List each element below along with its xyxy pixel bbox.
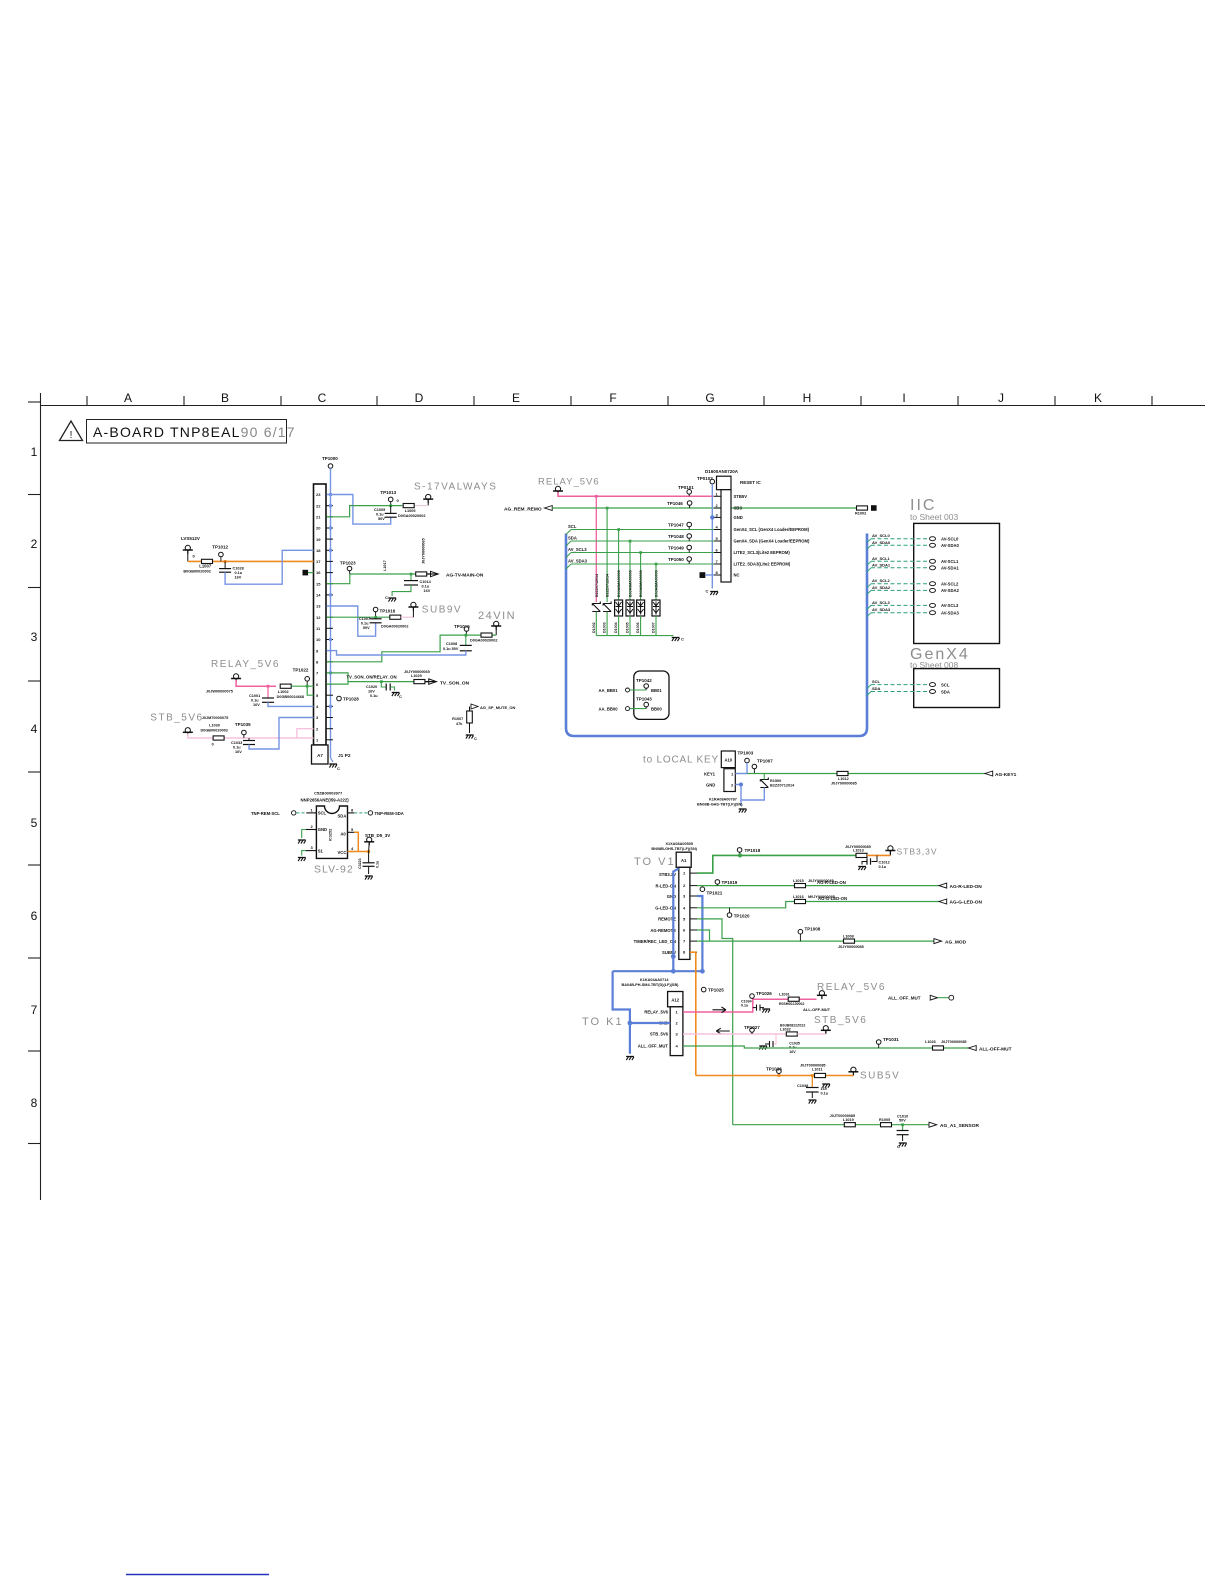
resistor L1029: [414, 680, 425, 684]
svg-text:15: 15: [316, 581, 321, 586]
svg-text:16V: 16V: [368, 690, 375, 694]
power flag RELAY_5V6 top: [553, 486, 563, 494]
svg-text:BB01: BB01: [651, 688, 662, 693]
ground R1007: [469, 723, 471, 733]
pin 3 S1: [306, 850, 317, 852]
resistor R1007 pullup: [469, 707, 471, 712]
svg-text:0.1u: 0.1u: [235, 571, 243, 575]
svg-text:0.1u: 0.1u: [370, 694, 378, 698]
svg-text:L1011: L1011: [812, 1068, 823, 1072]
svg-text:TP1049: TP1049: [668, 546, 684, 551]
svg-text:GenX4_SDA (GenX4 Loader/EEPROM: GenX4_SDA (GenX4 Loader/EEPROM): [734, 539, 811, 544]
test point TP1036: [777, 1069, 782, 1074]
pin 2 GND: [306, 829, 317, 831]
wire orange LVS512V to pin 17: [188, 560, 314, 562]
svg-text:ALL-OFF-MUT: ALL-OFF-MUT: [979, 1046, 1012, 1052]
svg-text:TP1003: TP1003: [738, 751, 754, 756]
svg-text:TP1000: TP1000: [322, 456, 338, 461]
wire green pin4 G-LED-ON: [697, 902, 939, 908]
svg-text:GND: GND: [318, 827, 327, 832]
wire pale pink pin3 STB_5V6: [683, 1033, 791, 1035]
junction dot: [380, 680, 383, 683]
svg-text:AA_BB00: AA_BB00: [599, 707, 619, 712]
svg-text:AV-SDA3: AV-SDA3: [941, 611, 960, 616]
ground TO K1: [626, 1057, 634, 1061]
junction dot: [465, 634, 468, 637]
svg-text:4: 4: [716, 525, 719, 530]
svg-text:A-BOARD TNP8EAL90 6/17: A-BOARD TNP8EAL90 6/17: [93, 424, 296, 440]
wire green pin2 to ground: [302, 830, 306, 839]
resistor L1015: [795, 884, 806, 888]
svg-text:BB00: BB00: [651, 707, 662, 712]
GenX4 sheet box: [914, 669, 1000, 708]
svg-text:C1007: C1007: [359, 617, 370, 621]
svg-text:0.1u: 0.1u: [233, 746, 241, 750]
svg-text:B: B: [221, 391, 229, 405]
svg-text:14: 14: [316, 593, 321, 598]
svg-text:J0JY00000085: J0JY00000085: [831, 782, 857, 786]
wire blue gnd pin3: [697, 896, 702, 971]
svg-text:7: 7: [716, 559, 719, 564]
svg-text:TP1046: TP1046: [667, 501, 683, 506]
svg-text:L1019: L1019: [843, 1118, 854, 1122]
wire green pin 16 to AG-TV-MAIN-ON: [327, 574, 430, 584]
wire green pin6 join: [697, 930, 710, 941]
arrow out TV_SON_ON: [425, 681, 436, 683]
arrow glyph left: [716, 1028, 730, 1034]
svg-text:12: 12: [316, 615, 321, 620]
svg-text:SUB9V: SUB9V: [422, 605, 462, 616]
svg-text:0.1u: 0.1u: [741, 1004, 748, 1008]
svg-text:B2ZZ0712014: B2ZZ0712014: [770, 784, 795, 788]
svg-text:ALL-OFF-MUT: ALL-OFF-MUT: [803, 1007, 831, 1012]
wire green pin7 TIMER row: [697, 940, 934, 942]
wire green taps to diodes: [619, 530, 656, 603]
wire pink pin1 RELAY_5V6: [683, 999, 817, 1012]
wire green pin4 ALL_OFF_MUT: [683, 1046, 969, 1048]
svg-text:50V: 50V: [899, 1119, 906, 1123]
svg-text:GenX4_SCL (GenX4 Loader/EEPROM: GenX4_SCL (GenX4 Loader/EEPROM): [734, 527, 810, 532]
test point TP1021: [700, 887, 705, 892]
connector A1 pin numbers: [683, 871, 686, 955]
svg-text:SUB5V: SUB5V: [860, 1071, 900, 1082]
svg-text:C1008: C1008: [446, 642, 457, 646]
svg-text:L1002: L1002: [278, 690, 289, 694]
ground diode common: [672, 638, 680, 642]
wire blue C1028 to pin 19: [225, 550, 313, 584]
arrow out ALL-OFF-MUT: [969, 1046, 977, 1051]
power flag 24VIN: [491, 621, 501, 629]
wire green pin3 to ground: [302, 851, 306, 856]
svg-text:H: H: [803, 391, 812, 405]
svg-text:TP1035: TP1035: [235, 722, 251, 727]
svg-text:GND: GND: [706, 783, 715, 788]
svg-text:16V: 16V: [253, 703, 260, 707]
power flag STB3,3V: [885, 846, 895, 854]
svg-text:A10: A10: [724, 758, 732, 763]
resistor L1016: [795, 899, 806, 903]
junction dot: [389, 504, 392, 507]
svg-text:0: 0: [397, 498, 400, 503]
connector A1 pin labels: [634, 872, 677, 955]
dual diode D1007: [652, 600, 660, 616]
resistor L1011: [815, 1073, 826, 1077]
svg-text:TP1048: TP1048: [668, 534, 684, 539]
wire blue gnd pin2 stub: [630, 1022, 670, 1024]
wire blue pin 13 staircase to C1007: [327, 606, 376, 636]
svg-text:24VIN: 24VIN: [478, 610, 516, 622]
power flag S-17VALWAYS: [423, 494, 433, 502]
svg-text:NNP2656ANE(I59-A222): NNP2656ANE(I59-A222): [301, 798, 350, 803]
capacitor C1033: [248, 738, 250, 741]
svg-text:C: C: [681, 637, 684, 642]
svg-text:21: 21: [316, 515, 321, 520]
svg-text:STB_5V6: STB_5V6: [650, 1032, 669, 1037]
svg-text:SCL: SCL: [568, 524, 577, 529]
svg-text:0.1u: 0.1u: [361, 622, 369, 626]
svg-text:AG-TV-MAIN-ON: AG-TV-MAIN-ON: [446, 573, 484, 579]
svg-text:3: 3: [31, 630, 38, 644]
svg-text:STB5V: STB5V: [734, 494, 748, 499]
svg-text:C1033: C1033: [231, 741, 242, 745]
svg-text:D0GB00020002: D0GB00020002: [201, 729, 228, 733]
resistor L1008: [844, 939, 855, 943]
svg-text:2: 2: [31, 537, 38, 551]
wire blue pin1 riser: [735, 763, 747, 774]
svg-text:C1028: C1028: [233, 567, 244, 571]
svg-text:D1003: D1003: [603, 622, 607, 633]
wire pale pink after L1009: [415, 505, 428, 507]
test point TP1018: [737, 848, 742, 853]
wire orange VCC rail: [348, 851, 369, 853]
svg-text:8: 8: [31, 1096, 38, 1110]
connector A10 shell: [721, 751, 735, 768]
power flag RELAY_5V6 left: [231, 674, 241, 682]
svg-text:D0GA00020002: D0GA00020002: [398, 514, 425, 518]
svg-text:R1005: R1005: [879, 1118, 890, 1122]
SECTION D: TO V1: [613, 842, 983, 1125]
ground C3223: [368, 866, 370, 874]
SECTION C: local key + SLV-92: [251, 751, 1017, 880]
svg-text:TV_SON_ON: TV_SON_ON: [440, 680, 470, 686]
resistor L1031: [788, 997, 799, 1001]
resistor L1009: [403, 504, 414, 508]
wire green SBS tap to D1003: [606, 508, 608, 602]
arrow out AG_MOD: [934, 939, 942, 944]
svg-text:C1014: C1014: [420, 580, 432, 584]
connector A12 body: [670, 1007, 683, 1056]
svg-text:RELAY_5V6: RELAY_5V6: [644, 1010, 668, 1015]
svg-text:TP1021: TP1021: [707, 891, 723, 896]
wire green pin1 STB3.3V: [697, 855, 856, 873]
wire green KEY1 row: [747, 773, 985, 775]
svg-text:TP1036: TP1036: [766, 1067, 782, 1072]
svg-text:TP1018: TP1018: [745, 848, 761, 853]
svg-text:C: C: [474, 736, 477, 741]
connector A7 pin stubs: [326, 495, 333, 740]
svg-text:R1002: R1002: [855, 512, 866, 516]
ground C1010: [902, 1135, 904, 1141]
svg-text:AG-G-LED-ON: AG-G-LED-ON: [818, 896, 847, 901]
IC SLV-92 body: [316, 806, 347, 858]
svg-text:L1009: L1009: [405, 509, 416, 513]
wire green pin 12 SUB9V row: [327, 616, 401, 618]
svg-text:TP1012: TP1012: [212, 545, 228, 550]
svg-text:D1006: D1006: [636, 622, 640, 633]
wire blue C1001 to pin 6: [268, 702, 314, 706]
svg-text:AV_SCL3: AV_SCL3: [568, 547, 587, 552]
svg-text:0.1u: 0.1u: [821, 1092, 829, 1096]
resistor L1012: [837, 771, 848, 775]
svg-text:AV-SCL2: AV-SCL2: [941, 582, 959, 587]
svg-text:5: 5: [31, 816, 38, 830]
warning triangle: [60, 421, 83, 441]
resistor L1026: [933, 1046, 944, 1050]
svg-text:TO K1: TO K1: [582, 1016, 624, 1028]
svg-text:AV_SDA3: AV_SDA3: [872, 607, 891, 612]
svg-text:L1013: L1013: [853, 849, 864, 853]
svg-text:C: C: [399, 694, 402, 699]
dual diode D1006: [637, 600, 645, 616]
capacitor C1020: [381, 682, 386, 687]
svg-text:C: C: [337, 766, 340, 771]
wire orange to STB3,3V: [867, 854, 890, 856]
wire green pin 23 to S-17V line: [327, 506, 403, 517]
svg-text:AV_SCL0: AV_SCL0: [872, 533, 890, 538]
svg-text:AG-R-LED-ON: AG-R-LED-ON: [950, 884, 983, 890]
svg-text:S1: S1: [318, 848, 324, 853]
ground IC D1600: [710, 592, 718, 596]
svg-text:AV-SDA1: AV-SDA1: [941, 566, 960, 571]
svg-text:TP1043: TP1043: [636, 697, 652, 702]
test point TP1019: [715, 880, 720, 885]
zener diode D1003: [603, 602, 611, 612]
svg-text:S-17VALWAYS: S-17VALWAYS: [414, 482, 497, 493]
svg-text:TP1025: TP1025: [708, 988, 724, 993]
svg-text:TP1031: TP1031: [883, 1037, 899, 1042]
svg-text:TP1007: TP1007: [757, 759, 773, 764]
svg-text:AV_SCL3: AV_SCL3: [872, 600, 890, 605]
svg-text:L1007: L1007: [199, 564, 212, 569]
wire green AV_SCL3 row: [571, 552, 714, 554]
test point TP1020: [727, 913, 732, 918]
svg-text:E: E: [512, 391, 520, 405]
wire pale pink to SUB9V: [401, 616, 414, 618]
svg-text:TP1028: TP1028: [343, 697, 359, 702]
ground C1038: [811, 1092, 813, 1098]
arrow out AG-R-LED-ON: [939, 883, 947, 888]
svg-text:AV_SDA1: AV_SDA1: [872, 562, 891, 567]
svg-text:2: 2: [716, 503, 719, 508]
svg-text:L1012: L1012: [838, 777, 849, 781]
svg-text:D1007: D1007: [652, 622, 656, 633]
svg-text:AG-R-LED-ON: AG-R-LED-ON: [817, 880, 846, 885]
svg-text:VCC: VCC: [338, 850, 347, 855]
svg-text:to Sheet 003: to Sheet 003: [910, 512, 958, 522]
svg-text:50V: 50V: [378, 517, 385, 521]
svg-text:TP1020: TP1020: [734, 913, 750, 918]
ground below connector: [331, 758, 334, 762]
svg-text:B0JA6MA00009: B0JA6MA00009: [629, 570, 633, 597]
svg-text:0.1u: 0.1u: [376, 861, 380, 868]
connector A12 pin numbers: [676, 1010, 679, 1049]
svg-text:8: 8: [716, 570, 719, 575]
svg-text:D0GA00020002: D0GA00020002: [470, 639, 497, 643]
svg-text:TP1023: TP1023: [340, 561, 356, 566]
svg-text:GND: GND: [734, 515, 743, 520]
svg-text:STB_5V6: STB_5V6: [814, 1015, 867, 1026]
IC D1600 pin numbers: [716, 491, 719, 575]
svg-text:16V: 16V: [235, 576, 242, 580]
svg-text:AV-SDA0: AV-SDA0: [941, 543, 960, 548]
svg-text:ALL_OFF_MUT: ALL_OFF_MUT: [638, 1044, 669, 1049]
resistor L1013: [856, 853, 867, 857]
pad square pin 18 left: [303, 570, 309, 576]
connector A1 pin stubs: [690, 873, 697, 952]
svg-text:AG-G-LED-ON: AG-G-LED-ON: [950, 900, 983, 906]
connector A1 body: [679, 867, 690, 959]
svg-text:L1032: L1032: [780, 1028, 791, 1032]
wire blue R1500/GND to ground: [735, 785, 764, 801]
svg-text:6: 6: [31, 909, 38, 923]
svg-text:B0GB00020002: B0GB00020002: [183, 570, 210, 574]
title box A-BOARD TNP8EAL90 6/17: [87, 420, 287, 444]
dashed stub TNP-REM-SDA: [354, 812, 367, 814]
test point TP1008: [798, 929, 803, 934]
wire pale pink STB row: [188, 734, 314, 739]
arrow in AG_REM_REMO: [545, 506, 553, 511]
svg-text:G: G: [705, 391, 714, 405]
wire green pin 10 staircase to 24VIN line: [327, 635, 497, 662]
zener R1500: [760, 778, 768, 788]
pin 4 VCC: [348, 851, 355, 853]
arrow out AG_A1_SENSOR: [929, 1122, 937, 1127]
svg-text:K: K: [1094, 391, 1102, 405]
svg-text:TP1047: TP1047: [668, 523, 684, 528]
svg-text:AV-SDA2: AV-SDA2: [941, 588, 960, 593]
resistor R1005: [881, 1123, 892, 1127]
svg-text:B0JA6MA00009: B0JA6MA00009: [655, 570, 659, 597]
svg-text:0.1u: 0.1u: [251, 699, 259, 703]
svg-text:K1KA04AA0714: K1KA04AA0714: [640, 978, 669, 982]
svg-text:L1015: L1015: [793, 879, 804, 883]
capacitor C1012: [872, 855, 878, 861]
svg-text:RELAY_5V6: RELAY_5V6: [211, 659, 280, 670]
svg-text:BN08B-GHS-TBT(LF)(SN): BN08B-GHS-TBT(LF)(SN): [651, 847, 697, 851]
resistor L1032: [786, 1032, 797, 1036]
svg-text:J0JT00000085: J0JT00000085: [830, 1114, 856, 1118]
wire pink RELAY to D1600 pin1: [558, 492, 714, 496]
capacitor C1010: [902, 1125, 904, 1131]
svg-text:C: C: [318, 391, 327, 405]
power flag SUB9V: [408, 602, 418, 610]
svg-text:L1017: L1017: [383, 560, 387, 571]
wire orange A0 to VCC: [354, 832, 358, 851]
svg-text:F: F: [609, 391, 616, 405]
frame row numbers: [31, 445, 38, 1110]
junction dot: [410, 573, 413, 576]
wire orange SUB5V rail: [696, 1075, 849, 1077]
power flag SUB5V: [848, 1067, 858, 1075]
IC D1600 pin stubs: [714, 496, 721, 575]
svg-text:SCL: SCL: [872, 679, 881, 684]
ground local key: [739, 809, 747, 813]
svg-text:C: C: [897, 1144, 900, 1149]
svg-text:AG_A1_SENSOR: AG_A1_SENSOR: [940, 1123, 979, 1129]
svg-text:ALL_OFF_MUT: ALL_OFF_MUT: [888, 996, 921, 1001]
connector A1 shell: [676, 852, 691, 867]
svg-text:6: 6: [716, 548, 719, 553]
svg-text:E0SH00JJ0002: E0SH00JJ0002: [779, 1002, 804, 1006]
svg-text:J0JW00000075: J0JW00000075: [206, 690, 233, 694]
svg-text:TP1042: TP1042: [636, 678, 652, 683]
svg-text:J0JY00000085: J0JY00000085: [845, 845, 871, 849]
svg-text:RESET IC: RESET IC: [740, 480, 762, 485]
test point TP1027: [750, 1028, 755, 1033]
connector BB box: [634, 671, 669, 719]
svg-text:D1002: D1002: [592, 622, 596, 633]
GenX4 box pins: [930, 683, 936, 687]
svg-text:D1600AN0720A: D1600AN0720A: [705, 469, 739, 474]
svg-text:0.1u 50V: 0.1u 50V: [443, 647, 459, 651]
svg-text:0.1u: 0.1u: [879, 865, 887, 869]
SECTION A: big connector A7 column: [150, 456, 516, 771]
svg-text:3: 3: [311, 845, 314, 850]
svg-text:16V: 16V: [424, 589, 431, 593]
bus blue U-shape: [566, 534, 867, 737]
svg-text:47k: 47k: [456, 722, 463, 726]
svg-text:C1020: C1020: [366, 685, 377, 689]
svg-text:20: 20: [316, 526, 321, 531]
wire green SCL row: [571, 529, 714, 531]
svg-text:SDA: SDA: [941, 689, 950, 694]
svg-text:I: I: [902, 391, 905, 405]
svg-text:16V: 16V: [789, 1050, 796, 1054]
capacitor C1005: [390, 506, 392, 514]
pad square R1002: [871, 505, 877, 511]
wire pink tap to D1002: [595, 496, 597, 602]
svg-text:8: 8: [351, 808, 354, 813]
svg-text:to LOCAL KEY: to LOCAL KEY: [643, 755, 719, 766]
connector A7 pin numbers: [316, 492, 321, 742]
svg-text:AA_BB01: AA_BB01: [599, 688, 619, 693]
wire blue C1033 to pin 4: [249, 718, 314, 750]
power flag STB_5V6: [183, 728, 193, 736]
pad square pin8: [700, 572, 706, 578]
arrow out AG-G-LED-ON: [939, 899, 947, 904]
svg-text:B2ZZ0712014: B2ZZ0712014: [595, 574, 599, 597]
svg-text:AV_SDA2: AV_SDA2: [872, 585, 891, 590]
connector shell box A7: [312, 745, 329, 764]
svg-text:3: 3: [716, 512, 719, 517]
connector A12 shell: [668, 992, 683, 1007]
bus exit flares right: [867, 539, 871, 696]
svg-text:0.1u: 0.1u: [376, 513, 384, 517]
svg-text:TO V1: TO V1: [634, 856, 676, 868]
wire green SDA row: [571, 540, 714, 542]
zener diode D1002: [592, 602, 600, 612]
ground: [388, 598, 396, 602]
svg-text:TP0101: TP0101: [678, 485, 694, 490]
svg-text:KEY1: KEY1: [704, 772, 716, 777]
arrow glyph right: [713, 1007, 727, 1013]
resistor on AG-TV line: [416, 572, 427, 576]
capacitor C1034: [753, 1007, 757, 1009]
wire blue pin 25 staircase to C1005: [327, 495, 391, 525]
test point TP1025: [701, 987, 706, 992]
svg-text:C5ZB00003977: C5ZB00003977: [314, 791, 343, 796]
test point TP1031: [876, 1040, 881, 1045]
